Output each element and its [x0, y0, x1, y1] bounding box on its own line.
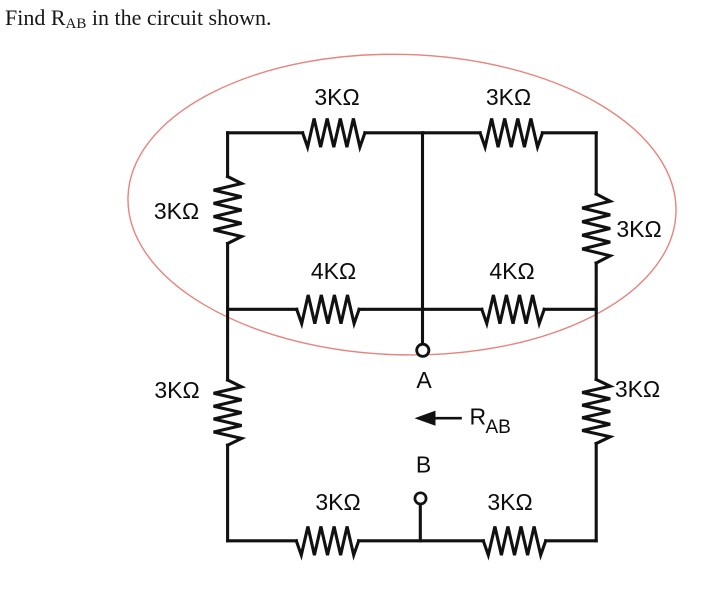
wire middle row right [544, 308, 596, 311]
svg-text:3KΩ: 3KΩ [487, 489, 532, 515]
wire middle row center [359, 308, 482, 311]
arrow RAB pointing left [434, 417, 461, 420]
wire top-right resistor to top-right corner [542, 131, 596, 134]
wire left rail upper segment [226, 133, 229, 177]
svg-text:3KΩ: 3KΩ [315, 489, 360, 515]
svg-text:4KΩ: 4KΩ [489, 258, 534, 284]
svg-text:B: B [416, 452, 431, 478]
node B terminal circle [415, 493, 426, 504]
resistor 3KΩ left lower vertical [214, 380, 242, 445]
wire top-left corner to top-left resistor [228, 131, 303, 134]
svg-text:3KΩ: 3KΩ [616, 216, 661, 242]
svg-text:3KΩ: 3KΩ [486, 84, 531, 110]
wire center vertical to node A [421, 133, 424, 348]
svg-text:3KΩ: 3KΩ [314, 84, 359, 110]
resistor 3KΩ top-right horizontal [480, 119, 542, 148]
svg-text:4KΩ: 4KΩ [311, 258, 356, 284]
title: Find RAB in the circuit shown. [5, 5, 272, 31]
resistor 3KΩ right upper vertical [582, 194, 610, 263]
resistor 3KΩ left upper vertical [214, 177, 242, 244]
red highlight ellipse [124, 47, 680, 362]
wire bottom-left corner to bottom-left resistor [228, 539, 297, 542]
wire between top resistors [365, 131, 480, 134]
wire right rail upper segment [595, 133, 598, 194]
wire bottom-right resistor to bottom-right corner [546, 539, 597, 542]
svg-text:3KΩ: 3KΩ [615, 376, 660, 402]
resistor 4KΩ middle-right horizontal [482, 295, 544, 324]
svg-text:3KΩ: 3KΩ [154, 198, 199, 224]
svg-text:AB: AB [486, 417, 511, 438]
wire right rail bottom segment [595, 444, 598, 541]
resistor 3KΩ top-left horizontal [303, 119, 365, 148]
node A terminal circle [417, 344, 429, 356]
wire middle row left [228, 308, 297, 311]
wire left rail middle segment [226, 244, 229, 381]
svg-text:R: R [470, 404, 487, 430]
wire left rail bottom segment [226, 445, 229, 541]
resistor 3KΩ bottom-right horizontal [483, 527, 545, 556]
svg-text:A: A [416, 367, 432, 393]
resistor 3KΩ bottom-left horizontal [296, 527, 358, 556]
svg-text:3KΩ: 3KΩ [154, 377, 199, 403]
wire bottom center [359, 539, 484, 542]
wire right rail middle segment [595, 263, 598, 380]
resistor 4KΩ middle-left horizontal [297, 295, 359, 324]
resistor 3KΩ right lower vertical [582, 380, 610, 444]
wire stub node B to bottom wire [419, 505, 422, 541]
